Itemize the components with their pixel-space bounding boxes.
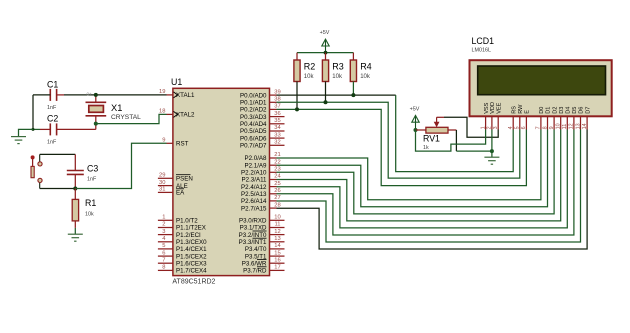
svg-text:P2.0/A8: P2.0/A8 xyxy=(244,155,267,162)
svg-text:31: 31 xyxy=(159,187,165,193)
svg-text:6: 6 xyxy=(521,126,527,129)
pin 39 P0.0/AD0 (right) xyxy=(240,89,281,99)
LCD pin 14 D7 xyxy=(582,107,591,130)
svg-text:P2.2/A10: P2.2/A10 xyxy=(241,170,267,177)
pin 22 P2.1/A9 (right) xyxy=(244,159,280,169)
svg-text:P2.6/A14: P2.6/A14 xyxy=(241,198,267,205)
svg-text:CRYSTAL: CRYSTAL xyxy=(111,114,141,121)
pin 13 P3.3/INT1 (right) xyxy=(239,236,285,246)
wire C1 left xyxy=(33,94,50,96)
pin 17 P3.7/RD (right) xyxy=(243,265,284,275)
svg-text:14: 14 xyxy=(274,243,281,249)
svg-text:8: 8 xyxy=(162,265,165,271)
junction crystal bottom xyxy=(94,122,98,126)
junction crystal top / XTAL1 xyxy=(94,93,98,97)
wire P2.0 to D0 xyxy=(277,130,541,200)
svg-text:P1.1/T2EX: P1.1/T2EX xyxy=(176,225,206,232)
pin 30 ALE (left) xyxy=(158,180,188,190)
svg-text:9: 9 xyxy=(162,138,165,144)
svg-text:VEE: VEE xyxy=(496,102,502,113)
svg-text:RV1: RV1 xyxy=(423,134,440,144)
LCD pin 9 D2 xyxy=(549,107,558,130)
LCD pin 12 D5 xyxy=(569,107,578,130)
svg-text:P1.4/CEX1: P1.4/CEX1 xyxy=(176,246,207,253)
pin 18 XTAL2 (left) xyxy=(159,109,195,119)
svg-text:P0.5/AD5: P0.5/AD5 xyxy=(240,128,267,135)
svg-text:U1: U1 xyxy=(171,77,182,87)
svg-text:P3.2/INT0: P3.2/INT0 xyxy=(239,232,267,239)
wire P0.1 to RW xyxy=(277,102,520,178)
svg-text:35: 35 xyxy=(274,118,280,124)
wire C2 left a xyxy=(33,128,40,130)
svg-text:D5: D5 xyxy=(572,107,578,114)
wire P2.5 to D5 xyxy=(277,130,574,236)
svg-text:11: 11 xyxy=(274,222,280,228)
svg-text:+5V: +5V xyxy=(410,106,420,112)
junction rail/+5V xyxy=(324,51,328,55)
svg-text:D2: D2 xyxy=(552,107,558,114)
svg-text:11: 11 xyxy=(562,124,568,130)
svg-text:12: 12 xyxy=(569,123,575,129)
svg-text:C2: C2 xyxy=(47,114,58,124)
svg-text:P0.0/AD0: P0.0/AD0 xyxy=(240,92,267,99)
LCD pin 8 D1 xyxy=(542,107,551,130)
svg-text:10k: 10k xyxy=(304,74,315,80)
svg-text:10: 10 xyxy=(556,123,562,129)
wire P2.1 to D1 xyxy=(277,130,548,207)
wire pull-up rail xyxy=(297,52,353,54)
LCD pin 1 VSS xyxy=(480,102,489,129)
pin 28 P2.7/A15 (right) xyxy=(241,202,281,212)
svg-text:16: 16 xyxy=(274,257,280,263)
pin 23 P2.2/A10 (right) xyxy=(241,167,281,177)
svg-text:39: 39 xyxy=(274,89,280,95)
LCD pin 2 VDD xyxy=(487,102,496,130)
svg-text:7: 7 xyxy=(162,257,165,263)
wire crystal to XTAL2 xyxy=(96,114,167,123)
svg-text:P2.4/A12: P2.4/A12 xyxy=(241,184,267,191)
LCD pin 4 RS xyxy=(508,106,517,130)
svg-text:+5V: +5V xyxy=(320,30,330,36)
potentiometer RV1 xyxy=(416,117,457,151)
svg-text:AT89C51RD2: AT89C51RD2 xyxy=(172,279,215,286)
svg-text:14: 14 xyxy=(582,123,588,129)
svg-text:P2.1/A9: P2.1/A9 xyxy=(244,162,267,169)
svg-text:P3.0/RXD: P3.0/RXD xyxy=(239,218,267,225)
svg-text:P1.3/CEX0: P1.3/CEX0 xyxy=(176,239,207,246)
svg-text:10k: 10k xyxy=(85,212,94,218)
svg-text:XTAL2: XTAL2 xyxy=(176,112,195,119)
svg-text:P0.4/AD4: P0.4/AD4 xyxy=(240,121,267,128)
pin 34 P0.5/AD5 (right) xyxy=(240,125,284,135)
svg-text:10k: 10k xyxy=(360,74,371,80)
wire P2.7 to D7 xyxy=(277,130,588,250)
svg-text:RW: RW xyxy=(518,104,524,114)
junction R3/P0.1 xyxy=(324,100,328,104)
svg-text:XTAL1: XTAL1 xyxy=(176,92,195,99)
svg-text:12: 12 xyxy=(274,229,280,235)
+5V power (pull-ups) xyxy=(320,30,330,52)
wire C2 left b xyxy=(40,128,50,130)
push button xyxy=(31,154,43,188)
junction C3/R1/RST xyxy=(73,187,77,191)
svg-text:D3: D3 xyxy=(559,107,565,114)
wire P2.3 to D3 xyxy=(277,130,561,221)
ground (C2) xyxy=(11,137,26,144)
pin 25 P2.4/A12 (right) xyxy=(241,181,281,191)
svg-text:R1: R1 xyxy=(85,198,96,208)
pin 19 XTAL1 (left) xyxy=(159,89,195,99)
pin 6 P1.5/CEX2 (left) xyxy=(158,250,207,260)
LCD pin 13 D6 xyxy=(575,107,584,130)
svg-text:RS: RS xyxy=(511,106,517,114)
svg-text:23: 23 xyxy=(274,167,280,173)
svg-text:D6: D6 xyxy=(579,107,585,114)
svg-text:1k: 1k xyxy=(423,145,429,151)
svg-text:13: 13 xyxy=(575,123,581,129)
svg-text:8: 8 xyxy=(542,126,548,129)
pin 32 P0.7/AD7 (right) xyxy=(240,140,284,150)
pin 38 P0.1/AD1 (right) xyxy=(240,97,281,107)
svg-text:28: 28 xyxy=(274,202,280,208)
junction R4/P0.0 xyxy=(351,93,355,97)
pin 35 P0.4/AD4 (right) xyxy=(240,118,284,128)
svg-text:C1: C1 xyxy=(47,80,58,90)
pin 5 P1.4/CEX1 (left) xyxy=(158,243,207,253)
wire button top to C3 xyxy=(40,153,76,155)
svg-text:D0: D0 xyxy=(539,107,545,114)
LCD pin 11 D4 xyxy=(562,107,571,130)
svg-text:RST: RST xyxy=(176,141,189,148)
junction +5V/RV1 xyxy=(414,128,418,132)
svg-text:13: 13 xyxy=(274,236,280,242)
pin 3 P1.2/ECI (left) xyxy=(158,229,201,239)
svg-text:1nF: 1nF xyxy=(87,177,97,183)
wire P0.0 to RS xyxy=(396,95,514,172)
pin 27 P2.6/A14 (right) xyxy=(241,195,281,205)
wire P2.2 to D2 xyxy=(277,130,555,214)
svg-text:P3.7/RD: P3.7/RD xyxy=(243,268,267,275)
svg-text:P0.3/AD3: P0.3/AD3 xyxy=(240,114,267,121)
svg-text:C3: C3 xyxy=(87,164,98,174)
wire C1 right stub xyxy=(57,94,64,96)
resistor R3 xyxy=(322,53,343,82)
svg-text:P1.5/CEX2: P1.5/CEX2 xyxy=(176,253,207,260)
wire to ground xyxy=(19,129,34,136)
ground (R1) xyxy=(68,234,83,241)
svg-text:9: 9 xyxy=(549,126,555,129)
pin 29 PSEN (left) xyxy=(158,173,193,183)
pin 9 RST (left) xyxy=(162,138,188,148)
svg-text:P1.2/ECI: P1.2/ECI xyxy=(176,232,201,239)
svg-text:P1.6/CEX3: P1.6/CEX3 xyxy=(176,260,207,267)
pin 36 P0.3/AD3 (right) xyxy=(240,111,284,121)
svg-text:X1: X1 xyxy=(111,103,122,113)
wire button bottom xyxy=(40,188,76,190)
svg-text:36: 36 xyxy=(274,111,280,117)
svg-text:10: 10 xyxy=(274,215,280,221)
svg-text:5: 5 xyxy=(515,126,521,129)
clock input chevron XTAL1 xyxy=(174,92,178,98)
svg-text:21: 21 xyxy=(274,152,280,158)
LCD pin 10 D3 xyxy=(556,107,565,130)
svg-text:18: 18 xyxy=(159,109,165,115)
resistor R4 xyxy=(350,53,371,82)
svg-text:4: 4 xyxy=(508,126,514,129)
svg-text:5: 5 xyxy=(162,243,165,249)
svg-text:1nF: 1nF xyxy=(47,140,57,146)
svg-text:P2.7/A15: P2.7/A15 xyxy=(241,205,267,212)
clock input chevron XTAL2 xyxy=(174,111,178,117)
junction R2/P0.2 xyxy=(295,107,299,111)
svg-text:P0.7/AD7: P0.7/AD7 xyxy=(240,143,267,150)
svg-text:27: 27 xyxy=(274,195,280,201)
wire to RST xyxy=(75,143,166,188)
pin 8 P1.7/CEX4 (left) xyxy=(158,265,207,275)
svg-text:P3.4/T0: P3.4/T0 xyxy=(245,246,267,253)
pin 7 P1.6/CEX3 (left) xyxy=(158,257,207,267)
wire RV1 to ground node xyxy=(456,150,492,152)
svg-text:P0.1/AD1: P0.1/AD1 xyxy=(240,100,267,107)
svg-text:15: 15 xyxy=(274,250,280,256)
wire P0.2 to E xyxy=(277,109,527,185)
crystal X1 xyxy=(86,95,142,129)
wire C2 right xyxy=(57,128,96,130)
ground stem xyxy=(491,151,493,157)
ground (LCD) xyxy=(484,157,499,164)
pin 4 P1.3/CEX0 (left) xyxy=(158,236,207,246)
capacitor C3 xyxy=(67,154,99,188)
pin 21 P2.0/A8 (right) xyxy=(244,152,280,162)
wire P2.6 to D6 xyxy=(277,130,581,243)
svg-text:D7: D7 xyxy=(585,107,591,114)
svg-text:22: 22 xyxy=(274,159,280,165)
svg-text:VDD: VDD xyxy=(490,102,496,114)
LCD pin 5 RW xyxy=(515,104,524,130)
wire C1-C2 vertical xyxy=(32,95,34,129)
pin 2 P1.1/T2EX (left) xyxy=(158,222,206,232)
svg-text:38: 38 xyxy=(274,97,280,103)
pin 11 P3.1/TXD (right) xyxy=(240,222,285,232)
svg-text:EA: EA xyxy=(176,190,185,197)
svg-text:6: 6 xyxy=(162,250,165,256)
svg-text:37: 37 xyxy=(274,104,280,110)
pin 16 P3.6/WR (right) xyxy=(242,257,285,267)
svg-text:10k: 10k xyxy=(332,74,343,80)
junction C2 left xyxy=(32,128,35,131)
svg-text:24: 24 xyxy=(274,174,281,180)
pin 26 P2.5/A13 (right) xyxy=(241,188,281,198)
svg-text:1nF: 1nF xyxy=(47,105,57,111)
svg-text:33: 33 xyxy=(274,132,280,138)
svg-text:2: 2 xyxy=(162,222,165,228)
capacitor C2 xyxy=(47,114,58,146)
svg-text:PSEN: PSEN xyxy=(176,176,193,183)
pin 33 P0.6/AD6 (right) xyxy=(240,132,284,142)
svg-text:LM016L: LM016L xyxy=(472,48,491,54)
svg-text:R4: R4 xyxy=(360,62,372,72)
svg-text:P2.3/A11: P2.3/A11 xyxy=(242,177,268,184)
capacitor C1 xyxy=(47,80,58,111)
wire +5V to VSS xyxy=(416,130,486,152)
svg-text:P2.5/A13: P2.5/A13 xyxy=(241,191,267,198)
pin 31 EA (left) xyxy=(158,187,185,197)
svg-text:32: 32 xyxy=(274,140,280,146)
pin 24 P2.3/A11 (right) xyxy=(242,174,282,184)
svg-text:R3: R3 xyxy=(332,62,344,72)
svg-text:3: 3 xyxy=(493,126,499,129)
pin 15 P3.5/T1 (right) xyxy=(245,250,285,260)
svg-text:VSS: VSS xyxy=(484,102,490,113)
svg-text:P3.3/INT1: P3.3/INT1 xyxy=(239,239,267,246)
svg-text:LCD1: LCD1 xyxy=(472,36,495,46)
svg-text:P0.6/AD6: P0.6/AD6 xyxy=(240,135,267,142)
resistor R1 xyxy=(72,189,96,235)
svg-text:2: 2 xyxy=(487,126,493,129)
svg-text:34: 34 xyxy=(274,125,281,131)
svg-text:26: 26 xyxy=(274,188,280,194)
svg-text:17: 17 xyxy=(274,265,280,271)
wire C1 to XTAL1 xyxy=(64,94,167,96)
pin 37 P0.2/AD2 (right) xyxy=(240,104,281,114)
junction ground node xyxy=(490,149,494,153)
svg-text:30: 30 xyxy=(159,180,165,186)
pin 10 P3.0/RXD (right) xyxy=(239,215,285,225)
LCD pin 7 D0 xyxy=(536,107,545,130)
svg-text:P1.0/T2: P1.0/T2 xyxy=(176,218,198,225)
pin 12 P3.2/INT0 (right) xyxy=(239,229,285,239)
svg-text:3: 3 xyxy=(162,229,165,235)
svg-text:R2: R2 xyxy=(304,62,316,72)
wire RV1 wiper to VEE xyxy=(444,117,498,137)
wire RV1 right down xyxy=(455,130,457,151)
wire P0.0 row xyxy=(277,94,396,96)
svg-text:E: E xyxy=(525,110,531,114)
svg-text:25: 25 xyxy=(274,181,280,187)
svg-text:29: 29 xyxy=(159,173,165,179)
svg-text:1: 1 xyxy=(162,215,165,221)
+5V power (RV1) xyxy=(410,106,420,130)
svg-text:0+: 0+ xyxy=(87,91,93,96)
svg-text:19: 19 xyxy=(159,89,165,95)
wire R3 to P0.1 row xyxy=(325,82,327,103)
svg-text:P3.6/WR: P3.6/WR xyxy=(242,260,267,267)
wire R4 to P0.0 row xyxy=(352,82,354,96)
pin 14 P3.4/T0 (right) xyxy=(245,243,285,253)
mcu U1 AT89C51RD2 xyxy=(171,77,270,286)
LCD pin 3 VEE xyxy=(493,102,502,129)
wire VDD down to ground xyxy=(491,130,493,152)
LCD1 LM016L xyxy=(470,36,612,116)
wire P2.4 to D4 xyxy=(277,130,568,228)
resistor R2 xyxy=(294,53,315,82)
pin 1 P1.0/T2 (left) xyxy=(158,215,198,225)
svg-text:P1.7/CEX4: P1.7/CEX4 xyxy=(176,268,207,275)
wire R2 to P0.2 row xyxy=(296,82,298,110)
svg-text:D1: D1 xyxy=(546,107,552,114)
svg-text:7: 7 xyxy=(536,126,542,129)
svg-text:1: 1 xyxy=(480,126,486,129)
svg-text:D4: D4 xyxy=(566,107,572,114)
svg-text:P0.2/AD2: P0.2/AD2 xyxy=(240,107,267,114)
LCD pin 6 E xyxy=(521,110,530,130)
